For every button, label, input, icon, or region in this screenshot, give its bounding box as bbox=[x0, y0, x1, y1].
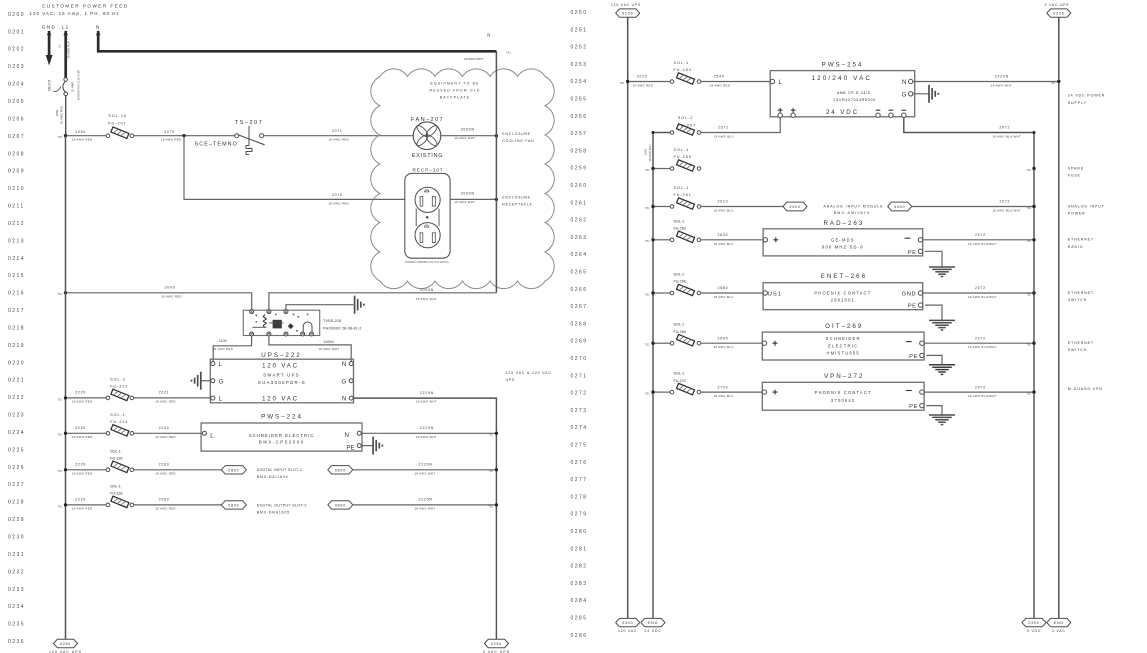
svg-text:1100: 1100 bbox=[219, 339, 227, 343]
svg-text:TB2: TB2 bbox=[1026, 292, 1031, 296]
svg-text:REUSED FROM OLD: REUSED FROM OLD bbox=[430, 89, 481, 93]
svg-text:EATON FAZ-C15-1-SP: EATON FAZ-C15-1-SP bbox=[77, 70, 81, 101]
svg-text:2071: 2071 bbox=[332, 129, 343, 133]
svg-text:18 AWG RED: 18 AWG RED bbox=[155, 471, 176, 475]
node 0VDC tap vpn router VPN-272 bbox=[1026, 390, 1035, 395]
svg-text:BMX-CPS2000: BMX-CPS2000 bbox=[259, 440, 305, 445]
svg-text:GND: GND bbox=[42, 24, 57, 30]
svg-text:18 AWG WHT: 18 AWG WHT bbox=[454, 200, 475, 204]
svg-text:PE: PE bbox=[908, 304, 917, 310]
wire L1 feed bbox=[58, 30, 71, 77]
svg-text:0800: 0800 bbox=[335, 503, 346, 507]
svg-text:0220: 0220 bbox=[8, 360, 25, 366]
svg-text:SWITCH: SWITCH bbox=[1068, 348, 1087, 352]
svg-text:2000: 2000 bbox=[165, 286, 176, 290]
svg-text:FU-228: FU-228 bbox=[110, 492, 122, 496]
wire 2050 bbox=[67, 130, 106, 142]
fuse FU-222 bbox=[106, 378, 134, 401]
svg-text:0800: 0800 bbox=[228, 468, 239, 472]
fuse FU-226 bbox=[106, 449, 134, 472]
svg-text:TB2: TB2 bbox=[1026, 343, 1031, 347]
ground vpn router VPN-272 PE bbox=[929, 415, 955, 425]
node PWS-224 N junction bbox=[488, 432, 498, 437]
tag END bottom 0VAC bbox=[1047, 618, 1071, 633]
svg-text:US1: US1 bbox=[768, 291, 782, 297]
node 0VDC tap operator interface OIT-269 bbox=[1026, 342, 1035, 347]
svg-text:18 AWG BLK: 18 AWG BLK bbox=[67, 41, 71, 59]
svg-text:PE: PE bbox=[346, 445, 354, 452]
svg-text:18 AWG RED: 18 AWG RED bbox=[328, 138, 349, 142]
fuse FU-261 bbox=[670, 186, 701, 209]
svg-text:18 AWG RED: 18 AWG RED bbox=[72, 507, 93, 511]
wire 120VAC UPS rail bbox=[627, 17, 629, 618]
svg-text:2571: 2571 bbox=[718, 126, 729, 130]
svg-text:DIGITAL INPUT SLOT-1: DIGITAL INPUT SLOT-1 bbox=[257, 468, 303, 472]
label DIGITAL INPUT SLOT-1 bbox=[257, 468, 303, 479]
svg-text:0253: 0253 bbox=[571, 62, 588, 68]
svg-text:0277: 0277 bbox=[571, 477, 588, 483]
svg-text:2610: 2610 bbox=[718, 200, 729, 204]
svg-text:0204: 0204 bbox=[8, 82, 25, 88]
svg-text:0261: 0261 bbox=[571, 200, 588, 206]
svg-text:2220: 2220 bbox=[75, 463, 86, 467]
svg-text:0223: 0223 bbox=[8, 413, 25, 419]
tag 0400 left bbox=[783, 202, 807, 211]
UPS U222 box bbox=[210, 352, 353, 403]
svg-text:0236: 0236 bbox=[622, 12, 633, 16]
svg-text:0210: 0210 bbox=[8, 186, 25, 192]
svg-text:SCHNEIDER ELECTRIC: SCHNEIDER ELECTRIC bbox=[249, 433, 315, 438]
node 2000 tap bbox=[57, 291, 67, 296]
node GND label bbox=[42, 24, 57, 30]
wire 2720 bbox=[701, 385, 762, 398]
svg-text:18 AWG RED: 18 AWG RED bbox=[155, 435, 176, 439]
svg-text:0272: 0272 bbox=[571, 391, 588, 397]
node N label bbox=[96, 24, 101, 30]
wire 2072 operator interface OIT-269 bbox=[924, 336, 1034, 349]
svg-text:DIGITAL OUTPUT SLOT-2: DIGITAL OUTPUT SLOT-2 bbox=[257, 503, 307, 507]
svg-text:0266: 0266 bbox=[571, 287, 588, 293]
wire 2000 bbox=[67, 286, 252, 299]
node rail junction FU-228 bbox=[488, 503, 498, 508]
fuse FU-272 bbox=[670, 372, 701, 395]
svg-text:SOL-2: SOL-2 bbox=[110, 378, 126, 382]
wire PE operator interface OIT-269 bbox=[926, 355, 942, 364]
wire 2220N FU-228 bbox=[353, 498, 497, 511]
svg-text:0255: 0255 bbox=[571, 97, 588, 103]
svg-text:ENET–266: ENET–266 bbox=[821, 273, 867, 280]
svg-text:2220N: 2220N bbox=[419, 498, 433, 502]
node bus tap 2610 bbox=[645, 205, 655, 210]
svg-text:18 AWG BLU: 18 AWG BLU bbox=[714, 394, 734, 398]
svg-text:18 AWG BLU/WHT: 18 AWG BLU/WHT bbox=[968, 394, 997, 398]
svg-text:2072: 2072 bbox=[999, 200, 1010, 204]
wire 2220 to FU-228 bbox=[67, 498, 106, 511]
svg-text:0269: 0269 bbox=[571, 339, 588, 345]
svg-text:18 AWG RED: 18 AWG RED bbox=[213, 347, 234, 351]
ground ethernet switch ENET-266 PE bbox=[929, 320, 955, 330]
svg-text:M-GUARD VPN: M-GUARD VPN bbox=[1068, 387, 1103, 391]
svg-text:TB1: TB1 bbox=[57, 397, 62, 401]
wire 2240 bbox=[134, 426, 203, 439]
svg-text:0227: 0227 bbox=[8, 482, 25, 488]
svg-text:0228: 0228 bbox=[8, 500, 25, 506]
fuse FU-257 bbox=[670, 116, 701, 135]
device vpn router VPN-272 bbox=[762, 373, 924, 410]
wire 2072 from minus bbox=[904, 117, 1036, 618]
wire 2050 vertical bbox=[55, 96, 66, 136]
svg-text:0262: 0262 bbox=[571, 218, 588, 224]
svg-text:SOL-1: SOL-1 bbox=[110, 413, 126, 417]
cloud EQUIPMENT TO BE REUSED bbox=[371, 69, 555, 289]
svg-text:SOL-1: SOL-1 bbox=[674, 186, 690, 190]
svg-text:SPARE: SPARE bbox=[1068, 166, 1084, 170]
wire 2072 radio RAD-263 bbox=[923, 233, 1034, 246]
svg-text:18 AWG WHT: 18 AWG WHT bbox=[318, 347, 339, 351]
svg-text:TB2: TB2 bbox=[645, 292, 650, 296]
svg-text:0215: 0215 bbox=[8, 273, 25, 279]
svg-text:18 AWG BLU/WHT: 18 AWG BLU/WHT bbox=[992, 209, 1021, 213]
svg-text:ENCLOSURE: ENCLOSURE bbox=[502, 195, 530, 199]
svg-text:18 AWG WHT: 18 AWG WHT bbox=[415, 471, 436, 475]
wire 2072 vpn router VPN-272 bbox=[924, 385, 1034, 398]
svg-text:BMX-DRA1605: BMX-DRA1605 bbox=[257, 510, 290, 514]
svg-text:2720: 2720 bbox=[718, 385, 729, 389]
svg-text:SOL-1: SOL-1 bbox=[674, 323, 685, 327]
svg-text:18 AWG BLU/WHT: 18 AWG BLU/WHT bbox=[968, 242, 997, 246]
svg-text:ELECTRIC: ELECTRIC bbox=[828, 343, 858, 348]
svg-text:0213: 0213 bbox=[8, 238, 25, 244]
svg-text:0278: 0278 bbox=[571, 494, 588, 500]
svg-text:SUA3000PDR-S: SUA3000PDR-S bbox=[258, 380, 306, 385]
svg-text:0279: 0279 bbox=[571, 512, 588, 518]
wire bus to fuse ethernet switch ENET-266 bbox=[655, 292, 671, 294]
tag 0800 right FU-228 bbox=[328, 501, 353, 509]
svg-text:0201: 0201 bbox=[8, 29, 25, 35]
line number column left (0200-0236) bbox=[8, 12, 25, 645]
wire neutral rail upper bbox=[495, 51, 497, 292]
svg-text:0400: 0400 bbox=[894, 205, 905, 209]
fuse FU-254 bbox=[670, 61, 701, 84]
thermal switch TS-207 bbox=[195, 120, 265, 155]
node 0VDC terminal 259 bbox=[1026, 167, 1035, 172]
label analog input power bbox=[1068, 204, 1105, 215]
svg-text:0285: 0285 bbox=[571, 616, 588, 622]
node receptacle neutral junction bbox=[495, 198, 498, 201]
svg-text:18 AWG RED: 18 AWG RED bbox=[633, 83, 654, 87]
node bus tap 2690 bbox=[645, 342, 655, 347]
label enclosure receptacle bbox=[502, 195, 532, 206]
svg-text:18 AWG WHT: 18 AWG WHT bbox=[464, 57, 483, 61]
node bus tap 2590 bbox=[645, 167, 655, 172]
wire 2220N FU-226 bbox=[353, 463, 497, 476]
fuse FU-263 bbox=[670, 219, 701, 242]
node 2220 tap bbox=[57, 396, 67, 401]
svg-text:0265: 0265 bbox=[571, 270, 588, 276]
svg-text:24 VDC: 24 VDC bbox=[826, 109, 859, 116]
svg-text:0258: 0258 bbox=[571, 148, 588, 154]
svg-text:SCE–TEMNO: SCE–TEMNO bbox=[195, 142, 238, 148]
svg-text:2072: 2072 bbox=[975, 336, 986, 340]
svg-text:0250: 0250 bbox=[491, 642, 502, 646]
wire 2610 bbox=[701, 200, 783, 213]
svg-text:0216: 0216 bbox=[8, 291, 25, 297]
wire 2220 a bbox=[67, 391, 106, 404]
svg-text:PE: PE bbox=[909, 404, 918, 410]
svg-text:18 AWG RED: 18 AWG RED bbox=[155, 400, 176, 404]
svg-text:TB2: TB2 bbox=[645, 392, 650, 396]
svg-text:0 VDC: 0 VDC bbox=[1027, 629, 1041, 633]
svg-text:1SVR427034R0000: 1SVR427034R0000 bbox=[833, 98, 876, 102]
svg-text:0225: 0225 bbox=[8, 447, 25, 453]
svg-text:FU-259: FU-259 bbox=[674, 155, 692, 159]
wire PE ethernet switch ENET-266 bbox=[925, 305, 942, 320]
svg-text:18 AWG BLU: 18 AWG BLU bbox=[714, 345, 734, 349]
svg-text:2891001: 2891001 bbox=[831, 298, 855, 303]
svg-text:2050: 2050 bbox=[75, 130, 86, 134]
svg-text:2000N: 2000N bbox=[461, 128, 475, 132]
tag 0250 left bbox=[49, 639, 82, 653]
svg-text:0212: 0212 bbox=[8, 221, 25, 227]
node 2220 tap right bbox=[620, 80, 630, 85]
svg-text:VPN–272: VPN–272 bbox=[824, 373, 865, 380]
svg-text:900 MHZ SD-9: 900 MHZ SD-9 bbox=[822, 245, 864, 250]
svg-text:24 VDC: 24 VDC bbox=[644, 629, 661, 633]
wire 1100 bbox=[213, 336, 252, 361]
svg-text:TB2: TB2 bbox=[1026, 392, 1031, 396]
tag 0250 right bbox=[483, 639, 510, 653]
wire 2070 receptacle branch bbox=[184, 136, 405, 206]
svg-text:18 AWG BLU/WHT: 18 AWG BLU/WHT bbox=[968, 345, 997, 349]
svg-text:0280: 0280 bbox=[571, 529, 588, 535]
wire 2540 bbox=[701, 75, 770, 88]
node fan neutral junction bbox=[495, 134, 498, 137]
svg-text:FU-272: FU-272 bbox=[674, 379, 686, 383]
node main junction bbox=[57, 134, 67, 139]
svg-text:2050: 2050 bbox=[55, 109, 59, 116]
svg-text:EQUIPMENT TO BE: EQUIPMENT TO BE bbox=[430, 82, 479, 86]
svg-text:0236: 0236 bbox=[1053, 12, 1064, 16]
svg-text:18 AWG WHT: 18 AWG WHT bbox=[416, 400, 437, 404]
fuse FU-269 bbox=[670, 323, 701, 346]
svg-text:TB1: TB1 bbox=[506, 51, 511, 55]
svg-text:FU-226: FU-226 bbox=[110, 457, 122, 461]
svg-text:L: L bbox=[219, 396, 223, 403]
svg-text:0231: 0231 bbox=[8, 552, 25, 558]
wire PE radio RAD-263 bbox=[925, 251, 942, 267]
svg-text:G: G bbox=[902, 92, 907, 99]
svg-text:0270: 0270 bbox=[571, 356, 588, 362]
svg-text:0226: 0226 bbox=[8, 465, 25, 471]
svg-text:0250: 0250 bbox=[60, 642, 71, 646]
power supply PWS-254 bbox=[770, 61, 915, 117]
svg-text:0 VAC: 0 VAC bbox=[1052, 629, 1066, 633]
wire 0VAC UPS rail bbox=[1058, 17, 1060, 618]
label DIGITAL OUTPUT SLOT-2 bbox=[257, 503, 307, 514]
svg-text:TB2: TB2 bbox=[645, 168, 650, 172]
svg-text:18 AWG BLU/WHT: 18 AWG BLU/WHT bbox=[992, 135, 1021, 139]
svg-text:0273: 0273 bbox=[571, 408, 588, 414]
svg-text:N: N bbox=[902, 79, 906, 86]
svg-text:0203: 0203 bbox=[8, 64, 25, 70]
wire PE vpn router VPN-272 bbox=[926, 406, 942, 415]
svg-text:TB2: TB2 bbox=[1026, 206, 1031, 210]
device ethernet switch ENET-266 bbox=[763, 273, 923, 310]
tag 0800 left FU-226 bbox=[221, 466, 246, 474]
svg-text:0286: 0286 bbox=[571, 633, 588, 639]
svg-text:2221: 2221 bbox=[159, 391, 170, 395]
svg-text:UPS–222: UPS–222 bbox=[261, 352, 302, 359]
svg-text:120 VAC UPS: 120 VAC UPS bbox=[611, 3, 641, 7]
svg-text:2072: 2072 bbox=[999, 126, 1010, 130]
svg-text:2220: 2220 bbox=[637, 75, 648, 79]
label 24 VDC power supply bbox=[1068, 94, 1105, 105]
svg-text:SWITCH: SWITCH bbox=[1068, 298, 1087, 302]
svg-text:18 AWG RED: 18 AWG RED bbox=[72, 400, 93, 404]
svg-text:TB1: TB1 bbox=[1051, 81, 1056, 85]
svg-text:BACKPLATE: BACKPLATE bbox=[440, 96, 471, 100]
ground PWS-224 PE bbox=[361, 437, 382, 455]
svg-text:18 AWG RED: 18 AWG RED bbox=[161, 138, 182, 142]
svg-text:0275: 0275 bbox=[571, 443, 588, 449]
wire N feed bbox=[96, 30, 511, 61]
node 0VDC tap radio RAD-263 bbox=[1026, 238, 1035, 243]
svg-text:0229: 0229 bbox=[8, 517, 25, 523]
wire 2000N fan bbox=[441, 128, 496, 141]
svg-text:0230: 0230 bbox=[8, 535, 25, 541]
device operator interface OIT-269 bbox=[762, 323, 924, 360]
wire PWS-224 N to rail bbox=[361, 426, 496, 439]
ground radio RAD-263 PE bbox=[929, 267, 955, 277]
svg-text:24 VDC POWER: 24 VDC POWER bbox=[1068, 94, 1105, 98]
svg-text:0208: 0208 bbox=[8, 151, 25, 157]
svg-text:0800: 0800 bbox=[335, 468, 346, 472]
wire 2660 bbox=[701, 286, 763, 299]
label analog input module bbox=[823, 205, 883, 216]
svg-text:0276: 0276 bbox=[571, 460, 588, 466]
svg-text:0274: 0274 bbox=[571, 425, 588, 431]
wire to FU-259 bbox=[655, 168, 671, 170]
wire 2071 bbox=[264, 129, 414, 141]
svg-text:0260: 0260 bbox=[571, 183, 588, 189]
svg-text:FU-261: FU-261 bbox=[674, 193, 692, 197]
wire left rail bbox=[65, 136, 67, 640]
svg-text:SOL-1: SOL-1 bbox=[674, 372, 685, 376]
label spare fuse bbox=[1068, 166, 1084, 177]
svg-text:0283: 0283 bbox=[571, 581, 588, 587]
svg-text:0257: 0257 bbox=[571, 131, 588, 137]
fuse FU-228 bbox=[106, 485, 134, 508]
svg-text:120 VAC: 120 VAC bbox=[262, 396, 299, 402]
svg-text:TB2: TB2 bbox=[645, 239, 650, 243]
node bus tap 2720 bbox=[645, 390, 655, 395]
svg-text:PWS–224: PWS–224 bbox=[261, 413, 303, 420]
svg-text:0271: 0271 bbox=[571, 373, 588, 379]
tag END bottom 24VDC bbox=[641, 618, 665, 633]
svg-text:2220N: 2220N bbox=[420, 391, 434, 395]
svg-text:N: N bbox=[345, 432, 349, 439]
ground operator interface OIT-269 PE bbox=[929, 365, 955, 375]
svg-text:0400: 0400 bbox=[789, 205, 800, 209]
ground feed arrow GND bbox=[46, 30, 53, 65]
svg-text:ENCLOSURE: ENCLOSURE bbox=[502, 132, 530, 136]
svg-text:0207: 0207 bbox=[8, 134, 25, 140]
svg-text:ANALOG INPUT: ANALOG INPUT bbox=[1068, 204, 1105, 208]
svg-text:FU-269: FU-269 bbox=[674, 330, 686, 334]
svg-text:PE: PE bbox=[908, 250, 917, 256]
wire 2220N right bbox=[913, 75, 1059, 88]
svg-text:PHOENIX 28-08-81-2: PHOENIX 28-08-81-2 bbox=[323, 327, 362, 331]
ground TVSS bbox=[355, 296, 364, 314]
wire 2000 drop bbox=[251, 293, 253, 311]
svg-text:18 AWG RED: 18 AWG RED bbox=[72, 435, 93, 439]
svg-text:0256: 0256 bbox=[571, 114, 588, 120]
svg-text:0267: 0267 bbox=[571, 304, 588, 310]
svg-text:18 AWG RED: 18 AWG RED bbox=[155, 507, 176, 511]
svg-text:0202: 0202 bbox=[8, 47, 25, 53]
svg-text:2220N: 2220N bbox=[419, 463, 433, 467]
svg-text:TB1: TB1 bbox=[57, 433, 62, 437]
svg-text:2072: 2072 bbox=[975, 286, 986, 290]
svg-text:ABB CP-E 24/D: ABB CP-E 24/D bbox=[837, 91, 871, 95]
svg-text:FU-266: FU-266 bbox=[674, 280, 686, 284]
svg-text:120 VAC, 15 Amp, 1 PH, 60 Hz: 120 VAC, 15 Amp, 1 PH, 60 Hz bbox=[30, 11, 120, 16]
svg-text:2072: 2072 bbox=[975, 233, 986, 237]
svg-text:ETHERNET: ETHERNET bbox=[1068, 341, 1094, 345]
svg-text:SUPPLY: SUPPLY bbox=[1068, 101, 1087, 105]
svg-text:L1: L1 bbox=[62, 24, 70, 30]
svg-text:0300: 0300 bbox=[1028, 621, 1039, 625]
svg-text:RADIO: RADIO bbox=[1068, 245, 1084, 249]
svg-text:TB2: TB2 bbox=[645, 206, 650, 210]
svg-text:2660: 2660 bbox=[718, 286, 729, 290]
power supply PWS-224 bbox=[201, 413, 362, 451]
svg-text:0281: 0281 bbox=[571, 546, 588, 552]
svg-text:18 AWG RED: 18 AWG RED bbox=[60, 105, 64, 124]
svg-text:G: G bbox=[219, 378, 224, 385]
tag 0236 top right bbox=[1045, 3, 1071, 17]
svg-text:FU-224: FU-224 bbox=[110, 420, 128, 424]
svg-text:2700642: 2700642 bbox=[831, 398, 855, 403]
svg-text:0284: 0284 bbox=[571, 598, 588, 604]
svg-text:0218: 0218 bbox=[8, 325, 25, 331]
svg-text:0200: 0200 bbox=[8, 12, 25, 18]
svg-text:CB-205: CB-205 bbox=[48, 80, 52, 92]
svg-text:UPS: UPS bbox=[506, 378, 516, 382]
svg-text:ETHERNET: ETHERNET bbox=[1068, 291, 1094, 295]
svg-text:0263: 0263 bbox=[571, 235, 588, 241]
svg-text:FU-254: FU-254 bbox=[674, 68, 692, 72]
svg-text:0233: 0233 bbox=[8, 587, 25, 593]
svg-text:120 VAC: 120 VAC bbox=[618, 629, 637, 633]
svg-text:18 AWG RED: 18 AWG RED bbox=[72, 471, 93, 475]
tag 0236 top left bbox=[611, 3, 641, 17]
svg-text:2540: 2540 bbox=[714, 75, 725, 79]
svg-text:2630: 2630 bbox=[718, 233, 729, 237]
svg-text:COOLING FAN: COOLING FAN bbox=[502, 139, 534, 143]
svg-text:18 AWG WHT: 18 AWG WHT bbox=[454, 136, 475, 140]
svg-text:FU-257: FU-257 bbox=[678, 123, 696, 127]
svg-text:SOL-1: SOL-1 bbox=[110, 485, 121, 489]
svg-text:0234: 0234 bbox=[8, 604, 25, 610]
node 0VAC tap bbox=[1051, 80, 1061, 85]
wire 2220 to FU-226 bbox=[67, 463, 106, 476]
svg-text:18 AWG RED: 18 AWG RED bbox=[328, 201, 349, 205]
wire 2220 right bbox=[629, 75, 670, 88]
svg-text:0268: 0268 bbox=[571, 321, 588, 327]
svg-text:18 AWG RED: 18 AWG RED bbox=[710, 83, 731, 87]
svg-text:GND: GND bbox=[902, 292, 917, 298]
